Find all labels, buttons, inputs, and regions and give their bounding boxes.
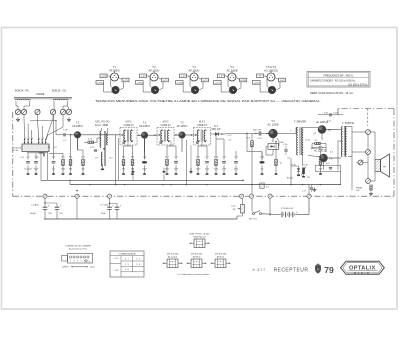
wire T6 leads <box>308 156 341 171</box>
variable capacitor CV.2 <box>50 109 55 114</box>
component C.2 50&#181;F <box>34 153 39 175</box>
wire grommet 270 down <box>269 198 270 215</box>
wire T3 leads <box>174 134 194 152</box>
commutateur table <box>110 251 144 277</box>
component R.8 1200 <box>196 146 201 175</box>
transistor T4 <box>269 129 278 138</box>
wire battery to chassis <box>295 198 309 214</box>
chassis grommet at x=109.5 <box>107 194 111 198</box>
info box frequencies <box>307 72 370 88</box>
wire osc to T1 <box>84 138 101 142</box>
svg-text:Le Condensateur est dans l: Le Condensateur est dans le Boîtier <box>178 273 210 276</box>
component R.10 6,8k <box>214 139 219 175</box>
svg-text:C.7 OSC.: C.7 OSC. <box>100 205 109 207</box>
capacitor C9b <box>44 202 62 219</box>
svg-text:T. DRIVER: T. DRIVER <box>294 121 306 124</box>
wire T1 leads <box>70 135 120 150</box>
svg-text:1: 1 <box>25 138 26 140</box>
svg-text:T.5 & T.6: T.5 & T.6 <box>266 65 277 69</box>
feedback capacitor C18 <box>318 113 343 116</box>
svg-text:C.23: C.23 <box>63 130 68 132</box>
svg-text:T.4: T.4 <box>271 119 275 123</box>
component C.1 10.40&#181;F <box>24 153 32 175</box>
svg-text:RECEPTEUR: RECEPTEUR <box>274 268 309 274</box>
svg-text:OPTALIX: OPTALIX <box>349 266 376 272</box>
label C.7 OSC <box>100 205 109 207</box>
label T5 tag <box>48 213 63 215</box>
svg-text:TENSIONS MESUREES AVEC VOLT: TENSIONS MESUREES AVEC VOLTMETRE A LAMPE… <box>95 99 321 103</box>
wire mf1 bottom link <box>124 141 133 146</box>
capacitor C10 coupling <box>257 131 262 140</box>
wire mf3 bottom link <box>198 141 207 146</box>
supply rail 1 <box>41 152 244 181</box>
capacitor C.17 filter <box>302 185 317 195</box>
wire under T4 <box>266 138 279 155</box>
pot volume 1M <box>238 205 245 214</box>
svg-text:-0,15V: -0,15V <box>240 80 247 82</box>
transistor T2 <box>141 132 148 139</box>
diode D4 detector <box>211 132 223 136</box>
component C.3 0,1 <box>52 115 56 175</box>
svg-text:-1,15V: -1,15V <box>176 82 183 84</box>
wire T4 leads <box>266 134 296 143</box>
label D.4 <box>211 126 221 131</box>
svg-text:5µF 12V: 5µF 12V <box>253 129 262 131</box>
transistor pinout T.4 AC.126/B <box>214 65 247 94</box>
transistor pinout T.3 AF.125/U <box>176 65 209 94</box>
svg-text:M.F.2 B.335: M.F.2 B.335 <box>191 254 203 256</box>
svg-text:T.3: T.3 <box>192 65 196 69</box>
svg-text:POT.: POT. <box>232 206 237 208</box>
wire bus jog <box>237 216 241 219</box>
label prise HP <box>356 188 363 193</box>
label 50uF b <box>101 213 106 215</box>
svg-text:C.10: C.10 <box>257 138 262 140</box>
label C.23 <box>63 130 68 143</box>
wire T6 base region <box>307 157 320 159</box>
wire antenna to T1 base <box>30 120 60 135</box>
label feedback 0.47 <box>324 113 338 115</box>
component C.8 0,05 <box>222 139 227 175</box>
coil diagram BOB PO/GO B.332 <box>190 234 211 248</box>
label INT PU <box>249 219 257 221</box>
svg-text:T.1: T.1 <box>76 121 80 125</box>
chassis grommet at x=309 <box>307 194 311 198</box>
svg-text:(Connecté au P.U.): (Connecté au P.U.) <box>69 248 88 251</box>
OPTALIX RADIO badge <box>341 261 385 275</box>
diode D3 <box>319 146 323 150</box>
title 79 <box>324 265 334 275</box>
chassis boundary bottom horizontal <box>13 195 338 197</box>
wire switch to batt <box>262 213 282 216</box>
transistor pinout T.5 &amp; T.6 AC.128/132 <box>253 65 286 94</box>
label BZ622 <box>287 177 310 180</box>
svg-text:C.18: C.18 <box>333 113 338 115</box>
svg-text:3: 3 <box>28 138 29 140</box>
svg-text:GAMMES D'ONDES : PO 510 à 1605: GAMMES D'ONDES : PO 510 à 1605 Kc <box>310 80 356 83</box>
resistor 4.7k <box>88 141 94 143</box>
svg-text:-1,1V: -1,1V <box>215 82 221 84</box>
svg-text:-0,7V: -0,7V <box>162 80 168 82</box>
svg-text:-0,7V: -0,7V <box>123 80 129 82</box>
feedback loop box <box>315 163 340 171</box>
svg-text:RADIO: RADIO <box>354 271 371 275</box>
svg-text:-1,2V: -1,2V <box>218 76 224 78</box>
svg-text:50µF: 50µF <box>34 169 39 171</box>
coil diagram MF1 B.334 <box>163 254 183 268</box>
component R.3 10k <box>81 150 85 175</box>
svg-text:50µF: 50µF <box>142 169 147 171</box>
label T.4 <box>267 119 278 126</box>
diode bias network D2 <box>268 142 284 150</box>
label T.2 <box>139 121 150 129</box>
caption condensateur boitier <box>178 273 210 276</box>
coil diagram MF2 B.335 <box>187 254 207 268</box>
wire under block <box>27 134 71 180</box>
label D3 <box>311 147 318 150</box>
svg-text:1: 1 <box>39 138 40 140</box>
svg-text:-0,2V: -0,2V <box>279 80 285 82</box>
label contacts du clavier <box>65 244 91 250</box>
component R.7 2200 <box>165 146 170 175</box>
label OSC <box>95 121 110 127</box>
label driver sec <box>291 131 311 142</box>
svg-text:5: 5 <box>32 138 33 140</box>
svg-text:BZ.622: BZ.622 <box>287 177 293 179</box>
svg-text:C.22: C.22 <box>90 147 95 149</box>
resistor R9 <box>251 134 254 152</box>
jack circle with arrow <box>358 160 363 165</box>
wire T2 leads <box>137 135 157 153</box>
chassis boundary left vertical <box>12 112 14 196</box>
ground right of gang <box>67 118 71 122</box>
svg-text:DEBIT SANS MODULATION : 15: DEBIT SANS MODULATION : 15 mA. <box>310 91 354 95</box>
svg-text:K.35: K.35 <box>14 150 19 152</box>
label antenna coils <box>15 90 66 97</box>
capacitor C9a 140uF <box>43 198 50 219</box>
capacitor C7osc <box>107 198 114 219</box>
switch INT <box>252 198 262 214</box>
chassis boundary right box <box>338 109 394 197</box>
svg-text:▲▲▲: ▲▲▲ <box>170 261 175 263</box>
ground left of gang <box>16 118 20 122</box>
svg-text:X 677: X 677 <box>253 268 266 272</box>
label T.DRIVER <box>294 121 306 124</box>
svg-text:-9V: -9V <box>258 76 262 78</box>
svg-text:5: 5 <box>46 138 47 140</box>
svg-text:T.2: T.2 <box>152 65 156 69</box>
battery 2 piles 4.5V <box>281 208 298 217</box>
wire T5 leads <box>308 128 341 141</box>
svg-text:BOB.35 - GO: BOB.35 - GO <box>52 90 66 93</box>
svg-text:(fil Noir): (fil Noir) <box>217 255 225 258</box>
svg-text:-4,5V: -4,5V <box>254 82 260 84</box>
svg-text:-1,25V: -1,25V <box>136 82 143 84</box>
label T6 ref <box>329 158 333 160</box>
svg-text:-1,45V: -1,45V <box>97 82 104 84</box>
component R.6 39k <box>131 146 135 175</box>
capacitor C23 <box>60 133 74 136</box>
svg-text:INT. P.U.: INT. P.U. <box>249 219 257 221</box>
svg-text:AF.125/U: AF.125/U <box>177 124 188 128</box>
svg-text:CADRE: CADRE <box>36 93 45 96</box>
crown emblem <box>315 264 321 274</box>
component C.4 50&#181;F <box>142 139 148 175</box>
wire driver top <box>296 128 308 134</box>
label 5uF 12V <box>253 129 262 131</box>
svg-text:(fil Jaune): (fil Jaune) <box>168 256 177 258</box>
IF transformer MF.1 CAMF.13 <box>120 121 137 146</box>
label poussoirs <box>14 148 23 153</box>
resistor 7k <box>315 142 321 144</box>
label C.22 <box>90 147 95 149</box>
svg-text:4,0: 4,0 <box>266 187 269 189</box>
transistor T5 <box>318 126 326 134</box>
label pot <box>232 206 237 211</box>
svg-text:(T.5): (T.5) <box>48 213 52 215</box>
variable capacitor trimmer <box>60 109 65 114</box>
svg-text:1M: 1M <box>233 209 236 211</box>
IF transformer MF.2 CAMF.14 <box>157 121 174 146</box>
svg-text:▲▲▲: ▲▲▲ <box>197 241 202 243</box>
label T.3 <box>177 121 188 129</box>
battery bus <box>44 218 237 220</box>
resistor R13 emitter <box>274 141 281 175</box>
wire sortie primary mid <box>338 141 343 170</box>
svg-text:T.2: T.2 <box>143 121 147 125</box>
label C.9 ACC <box>31 204 40 207</box>
jack dashed link <box>367 109 369 127</box>
svg-text:140µF: 140µF <box>30 213 37 215</box>
connector body <box>62 254 93 264</box>
wire pot top <box>241 198 243 216</box>
wire det branch <box>215 133 224 139</box>
label chevi arrows <box>62 266 96 269</box>
svg-text:M.F.1 B.334: M.F.1 B.334 <box>167 254 179 256</box>
IF transformer MF.3 CAMF.15 <box>194 121 211 146</box>
variable capacitor trimmer <box>35 109 40 114</box>
variable capacitor CV.1 <box>15 109 20 114</box>
svg-text:0,01: 0,01 <box>326 163 330 165</box>
label 4.7k <box>88 138 93 140</box>
label block voltages <box>48 147 58 149</box>
VDR R16 <box>301 167 306 178</box>
svg-text:CAMF.14: CAMF.14 <box>161 124 172 127</box>
component C.14 5,0 <box>259 152 265 175</box>
supply rail 2 <box>70 172 341 186</box>
svg-text:T. SORTIE: T. SORTIE <box>342 122 354 125</box>
component R.5 56k <box>122 146 126 175</box>
label R.15 <box>292 165 309 167</box>
capacitor C22 <box>94 150 97 151</box>
ferrite rod antenna with PO and GO windings <box>14 97 72 103</box>
svg-text:1W: 1W <box>307 177 310 179</box>
wires tuning gang to keyboard switch <box>24 115 63 140</box>
coil diagram MF3 B.336 <box>211 254 231 268</box>
output transformer windings <box>341 126 346 157</box>
svg-text:T.4: T.4 <box>230 65 234 69</box>
label 140uF <box>30 213 37 215</box>
label debit sans modulation <box>310 91 354 95</box>
keyboard pushbutton switch block <box>20 138 49 159</box>
component C.7 0,05 <box>205 146 210 175</box>
label 7k <box>315 140 318 142</box>
svg-text:C.9 ACC.: C.9 ACC. <box>31 204 40 207</box>
capacitor second osc <box>109 203 122 219</box>
wire grommet 77 down <box>76 190 78 219</box>
svg-text:T.1: T.1 <box>113 65 117 69</box>
svg-text:CHEVI: CHEVI <box>62 267 69 269</box>
svg-text:1k: 1k <box>280 162 282 164</box>
component R.1 150k <box>61 154 66 175</box>
svg-text:CONTACTS DU CLAVIER: CONTACTS DU CLAVIER <box>65 244 91 247</box>
svg-text:-1,5V: -1,5V <box>101 76 107 78</box>
svg-text:▲▲▲: ▲▲▲ <box>194 261 199 263</box>
svg-text:AF.125/U: AF.125/U <box>139 124 150 128</box>
resistor speaker net <box>369 185 373 196</box>
svg-text:(fil Bleu): (fil Bleu) <box>193 256 201 258</box>
driver transformer windings <box>297 127 304 155</box>
svg-text:C.17: C.17 <box>302 191 306 193</box>
transistor T6 <box>320 154 328 162</box>
wire volume net <box>247 134 262 195</box>
speaker HP <box>375 154 390 177</box>
label T5 ref <box>328 130 332 132</box>
jack contact bottom <box>366 179 371 184</box>
svg-text:← PO: ← PO <box>113 258 119 260</box>
svg-text:+(CT.): +(CT.) <box>90 267 96 269</box>
svg-text:← GO: ← GO <box>113 270 119 272</box>
wire mf1 verticals down <box>116 135 119 185</box>
wire T1 emitter to R3 <box>78 138 84 150</box>
variable capacitor trimmer <box>21 109 26 114</box>
svg-text:BOB. PO/GO - B.332: BOB. PO/GO - B.332 <box>190 234 210 236</box>
svg-text:BOB.34 - PO: BOB.34 - PO <box>15 90 29 93</box>
chassis grommet at x=251.5 <box>249 194 253 198</box>
wire detector out <box>222 133 226 136</box>
wire t2 emitter down <box>144 139 146 160</box>
svg-text:50µF: 50µF <box>101 213 106 215</box>
wire detector to T4 <box>226 133 269 134</box>
label voltages output <box>314 121 334 154</box>
svg-text:(T.1): (T.1) <box>59 213 63 215</box>
svg-text:GO 150 à 270 Kc: GO 150 à 270 Kc <box>348 84 368 87</box>
svg-text:Fond : 280R: Fond : 280R <box>95 124 108 127</box>
jack contact top <box>366 130 371 135</box>
svg-text:AC.128/132: AC.128/132 <box>264 69 278 73</box>
svg-text:CAMF.15: CAMF.15 <box>197 124 208 127</box>
transistor T3 <box>179 132 186 139</box>
label R.9 <box>247 138 251 140</box>
transistor pinout T.2 AF.125/U <box>136 65 169 94</box>
svg-text:-0,7V: -0,7V <box>202 80 208 82</box>
label T.1 <box>72 121 83 129</box>
wires antenna to tuning gang <box>16 104 69 110</box>
wire jack <box>352 132 368 179</box>
svg-text:2 PILES 4,5V: 2 PILES 4,5V <box>281 208 294 210</box>
label T6 type <box>314 150 327 153</box>
caption tensions mesurees <box>95 99 321 103</box>
svg-text:SFD.107: SFD.107 <box>211 129 221 131</box>
variable capacitor trimmer <box>66 109 71 114</box>
svg-text:C.71: C.71 <box>20 157 24 159</box>
svg-text:79: 79 <box>324 265 334 275</box>
wire speaker <box>356 132 375 181</box>
transistor T1 <box>74 132 81 139</box>
svg-text:3: 3 <box>43 138 44 140</box>
capacitor C.16 <box>283 144 291 159</box>
diode D4 vertical <box>291 166 300 176</box>
oscillator transformer B.36 <box>95 128 114 170</box>
component C.8 0,04 <box>234 151 239 175</box>
component R.4 680 <box>69 135 73 175</box>
wire verticals to rails <box>186 140 302 185</box>
svg-text:COMMUTATEUR: COMMUTATEUR <box>119 253 136 256</box>
component 0,47 1W <box>319 151 324 175</box>
svg-text:CAMF.13: CAMF.13 <box>124 124 135 127</box>
svg-text:POUSS.: POUSS. <box>14 148 23 150</box>
svg-text:(5608 Spires): (5608 Spires) <box>193 235 206 238</box>
svg-text:-1,3V: -1,3V <box>140 76 146 78</box>
svg-text:AC.126/B: AC.126/B <box>267 122 278 126</box>
chassis grommet at x=77 <box>75 194 79 198</box>
svg-text:FREQUENCE MF : 455 Kc: FREQUENCE MF : 455 Kc <box>324 74 355 77</box>
title X677 <box>253 268 266 272</box>
label T.SORTIE <box>342 122 354 125</box>
svg-text:AF.185/U: AF.185/U <box>72 124 83 128</box>
chassis grommet at x=270 <box>268 194 272 198</box>
wire sortie secondary <box>347 127 352 191</box>
label agc values <box>227 135 232 142</box>
chassis grommet at x=45 <box>43 194 47 198</box>
thermistor on rail <box>260 183 269 189</box>
svg-text:H.P.: H.P. <box>356 190 360 192</box>
svg-text:T.3: T.3 <box>180 121 184 125</box>
jack contact mid <box>366 150 371 155</box>
svg-text:-1,2V: -1,2V <box>180 76 186 78</box>
transistor pinout T.1 AF.185/U <box>96 65 129 94</box>
svg-text:M.F.3 B.336: M.F.3 B.336 <box>215 254 227 256</box>
label T5 type <box>316 121 329 124</box>
title RECEPTEUR <box>274 268 309 274</box>
svg-text:10.40µF: 10.40µF <box>24 169 32 171</box>
chassis grommet at x=241.5 <box>239 194 243 198</box>
component C.6 0,05 <box>174 146 179 175</box>
wire mf2 bottom link <box>167 141 176 146</box>
wire bias chain <box>312 144 326 153</box>
svg-text:▲▲▲: ▲▲▲ <box>218 261 223 263</box>
